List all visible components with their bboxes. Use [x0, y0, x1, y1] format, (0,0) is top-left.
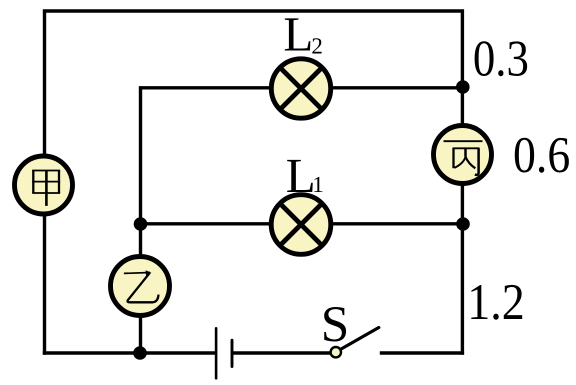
svg-text:0.6: 0.6: [513, 127, 570, 184]
svg-text:0.3: 0.3: [473, 31, 529, 88]
svg-text:1.2: 1.2: [467, 274, 525, 331]
svg-text:L: L: [283, 6, 313, 61]
svg-text:S: S: [321, 296, 350, 353]
svg-text:1: 1: [312, 172, 324, 197]
svg-text:2: 2: [311, 33, 323, 58]
